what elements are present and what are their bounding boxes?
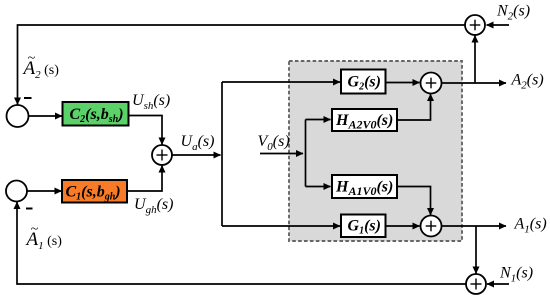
svg-text:Ugh(s): Ugh(s) [134,196,173,216]
svg-text:Ua(s): Ua(s) [181,133,215,153]
svg-text:A2(s): A2(s) [511,72,544,92]
svg-text:G2(s): G2(s) [348,74,381,93]
svg-text:V0(s): V0(s) [258,133,290,153]
svg-text:A1(s): A1(s) [514,216,547,236]
svg-text:Ush(s): Ush(s) [132,92,170,112]
svg-text:G1(s): G1(s) [348,218,381,237]
svg-text:N2(s): N2(s) [496,3,530,23]
svg-text:N1(s): N1(s) [499,265,533,285]
svg-text:~: ~ [31,222,39,237]
svg-text:~: ~ [28,51,36,66]
